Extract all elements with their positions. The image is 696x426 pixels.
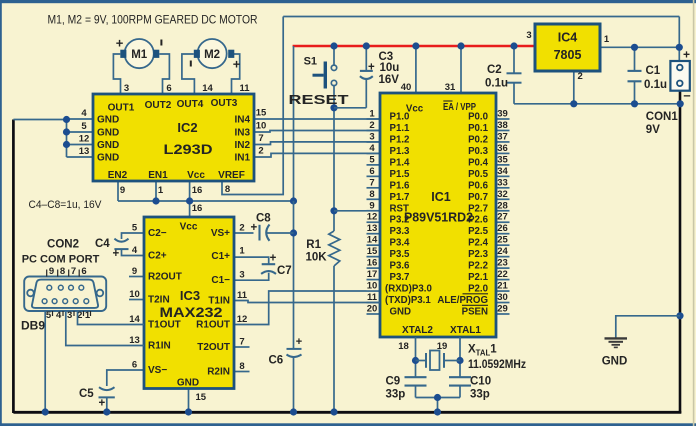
svg-text:9: 9 xyxy=(49,266,54,277)
svg-text:0.1u: 0.1u xyxy=(485,78,508,90)
svg-text:R1OUT: R1OUT xyxy=(196,320,230,331)
svg-text:30: 30 xyxy=(497,292,508,303)
svg-text:MAX232: MAX232 xyxy=(160,305,223,320)
svg-text:R1IN: R1IN xyxy=(148,341,171,352)
svg-text:13: 13 xyxy=(367,223,378,234)
svg-text:Vcc: Vcc xyxy=(180,222,198,233)
svg-text:P0.7: P0.7 xyxy=(468,192,488,203)
svg-text:PSEN: PSEN xyxy=(462,306,488,317)
svg-text:14: 14 xyxy=(202,83,213,94)
svg-text:P2.4: P2.4 xyxy=(468,238,489,249)
svg-text:CON2: CON2 xyxy=(47,239,79,251)
svg-text:C7: C7 xyxy=(277,265,292,277)
svg-text:P1.2: P1.2 xyxy=(390,134,410,145)
svg-text:XTAL1: XTAL1 xyxy=(450,325,481,336)
svg-text:39: 39 xyxy=(497,109,508,120)
svg-text:–: – xyxy=(683,88,690,103)
svg-text:P3.6: P3.6 xyxy=(390,261,411,272)
svg-text:7: 7 xyxy=(239,337,244,348)
svg-text:9V: 9V xyxy=(646,124,660,136)
svg-text:5: 5 xyxy=(132,223,138,234)
svg-text:3: 3 xyxy=(239,270,244,281)
svg-text:22: 22 xyxy=(497,269,508,280)
svg-text:+: + xyxy=(296,336,302,348)
svg-text:P0.4: P0.4 xyxy=(468,157,489,168)
svg-text:2: 2 xyxy=(239,223,244,234)
svg-text:P0.1: P0.1 xyxy=(468,123,489,134)
svg-text:10u: 10u xyxy=(380,62,400,74)
svg-text:Vcc: Vcc xyxy=(406,104,424,115)
svg-text:3: 3 xyxy=(124,83,129,94)
svg-text:12: 12 xyxy=(237,314,248,325)
svg-text:PC COM PORT: PC COM PORT xyxy=(22,254,100,266)
svg-text:T2OUT: T2OUT xyxy=(197,342,230,353)
svg-text:OUT1: OUT1 xyxy=(108,103,135,114)
svg-text:18: 18 xyxy=(398,341,409,352)
svg-text:1: 1 xyxy=(158,185,164,196)
svg-text:C1−: C1− xyxy=(211,275,230,286)
svg-text:16V: 16V xyxy=(379,74,400,86)
svg-text:EN1: EN1 xyxy=(148,170,168,181)
svg-text:28: 28 xyxy=(497,200,508,211)
svg-text:L293D: L293D xyxy=(164,141,213,157)
svg-text:VS−: VS− xyxy=(148,365,167,376)
svg-text:11: 11 xyxy=(239,83,250,94)
svg-text:6: 6 xyxy=(81,266,86,277)
svg-text:GND: GND xyxy=(97,153,119,164)
svg-text:XTAL2: XTAL2 xyxy=(402,325,433,336)
svg-text:0.1u: 0.1u xyxy=(644,79,667,91)
svg-text:17: 17 xyxy=(367,269,378,280)
svg-text:C8: C8 xyxy=(256,213,271,225)
svg-text:15: 15 xyxy=(256,108,267,119)
svg-text:1: 1 xyxy=(369,109,375,120)
svg-text:C5: C5 xyxy=(79,388,94,400)
svg-text:31: 31 xyxy=(445,82,456,93)
svg-text:6: 6 xyxy=(369,166,374,177)
svg-text:25: 25 xyxy=(497,235,508,246)
svg-text:+: + xyxy=(112,248,119,260)
svg-text:VS+: VS+ xyxy=(211,228,230,239)
svg-text:8: 8 xyxy=(239,361,244,372)
svg-text:7: 7 xyxy=(369,177,374,188)
svg-text:13: 13 xyxy=(129,335,140,346)
svg-text:DB9: DB9 xyxy=(21,319,45,333)
svg-text:8: 8 xyxy=(369,189,374,200)
svg-text:P3.7: P3.7 xyxy=(390,272,410,283)
svg-text:2: 2 xyxy=(369,120,374,131)
svg-text:37: 37 xyxy=(497,131,508,142)
svg-text:P1.7: P1.7 xyxy=(390,192,410,203)
svg-text:EN2: EN2 xyxy=(108,170,128,181)
svg-text:C2+: C2+ xyxy=(148,251,167,262)
svg-text:C1: C1 xyxy=(646,65,661,77)
svg-text:P2.1: P2.1 xyxy=(468,272,489,283)
svg-text:23: 23 xyxy=(497,258,508,269)
svg-text:+: + xyxy=(116,36,124,51)
svg-text:IC4: IC4 xyxy=(558,31,578,45)
svg-text:+: + xyxy=(98,398,105,410)
svg-text:R2OUT: R2OUT xyxy=(148,272,182,283)
svg-text:7: 7 xyxy=(258,133,263,144)
svg-text:16: 16 xyxy=(192,203,203,214)
svg-text:M1: M1 xyxy=(131,49,148,61)
svg-text:M1, M2 = 9V, 100RPM GEARED DC: M1, M2 = 9V, 100RPM GEARED DC MOTOR xyxy=(48,15,258,27)
svg-text:IN4: IN4 xyxy=(234,115,250,126)
svg-text:6: 6 xyxy=(132,360,137,371)
svg-text:3: 3 xyxy=(369,131,374,142)
svg-text:10: 10 xyxy=(367,281,378,292)
svg-text:4: 4 xyxy=(132,245,138,256)
svg-text:27: 27 xyxy=(497,212,508,223)
svg-text:OUT3: OUT3 xyxy=(211,98,238,109)
svg-text:5: 5 xyxy=(369,154,375,165)
svg-text:Vcc: Vcc xyxy=(187,170,205,181)
svg-text:P3.5: P3.5 xyxy=(390,249,411,260)
svg-text:9: 9 xyxy=(369,200,374,211)
svg-text:P1.6: P1.6 xyxy=(390,180,411,191)
svg-text:P1.5: P1.5 xyxy=(390,169,411,180)
svg-text:16: 16 xyxy=(367,258,378,269)
svg-text:8: 8 xyxy=(60,266,65,277)
svg-text:2: 2 xyxy=(258,146,263,157)
svg-text:P1.3: P1.3 xyxy=(390,146,411,157)
svg-text:+: + xyxy=(683,48,690,62)
svg-text:VREF: VREF xyxy=(218,170,245,181)
svg-text:26: 26 xyxy=(497,223,508,234)
svg-text:4: 4 xyxy=(369,143,375,154)
svg-text:P2.3: P2.3 xyxy=(468,249,489,260)
svg-text:RESET: RESET xyxy=(289,93,350,107)
svg-text:33p: 33p xyxy=(470,389,490,401)
svg-text:4: 4 xyxy=(56,310,62,321)
svg-text:P1.1: P1.1 xyxy=(390,123,411,134)
svg-text:C2: C2 xyxy=(487,64,502,76)
svg-text:32: 32 xyxy=(497,189,508,200)
svg-text:3: 3 xyxy=(67,310,72,321)
svg-text:14: 14 xyxy=(129,314,140,325)
svg-text:T2IN: T2IN xyxy=(148,295,170,306)
svg-text:GND: GND xyxy=(97,128,119,139)
svg-text:IN2: IN2 xyxy=(234,140,250,151)
svg-text:5: 5 xyxy=(81,121,87,132)
svg-text:C9: C9 xyxy=(386,376,401,388)
svg-text:35: 35 xyxy=(497,154,508,165)
svg-text:P89V51RD2: P89V51RD2 xyxy=(404,210,473,225)
svg-text:P1.4: P1.4 xyxy=(390,157,411,168)
svg-text:IC2: IC2 xyxy=(177,120,197,135)
svg-text:24: 24 xyxy=(497,246,508,257)
svg-text:3: 3 xyxy=(526,30,531,41)
svg-text:11: 11 xyxy=(367,292,378,303)
svg-text:33: 33 xyxy=(497,177,508,188)
svg-text:38: 38 xyxy=(497,120,508,131)
svg-text:10: 10 xyxy=(256,121,267,132)
svg-text:P2.5: P2.5 xyxy=(468,226,489,237)
svg-text:2: 2 xyxy=(578,71,583,82)
svg-text:15: 15 xyxy=(367,246,378,257)
svg-text:C1+: C1+ xyxy=(211,251,230,262)
svg-text:P2.2: P2.2 xyxy=(468,261,488,272)
svg-text:P0.3: P0.3 xyxy=(468,146,489,157)
svg-text:4: 4 xyxy=(81,108,87,119)
svg-text:T1OUT: T1OUT xyxy=(148,320,181,331)
svg-text:IC1: IC1 xyxy=(431,190,451,204)
svg-text:IN3: IN3 xyxy=(234,128,250,139)
svg-text:GND: GND xyxy=(97,140,119,151)
svg-text:IN1: IN1 xyxy=(234,153,250,164)
svg-text:11.0592MHz: 11.0592MHz xyxy=(468,359,526,371)
svg-text:12: 12 xyxy=(79,134,90,145)
svg-text:20: 20 xyxy=(367,303,378,314)
svg-text:M2: M2 xyxy=(204,49,220,61)
svg-text:C4–C8=1u, 16V: C4–C8=1u, 16V xyxy=(29,199,103,211)
svg-text:10K: 10K xyxy=(306,252,328,264)
svg-text:P3.3: P3.3 xyxy=(390,226,411,237)
svg-text:P2.0: P2.0 xyxy=(468,284,488,295)
svg-text:P0.6: P0.6 xyxy=(468,180,489,191)
svg-text:+: + xyxy=(270,253,277,265)
svg-text:ALE/PROG: ALE/PROG xyxy=(437,295,488,306)
svg-text:40: 40 xyxy=(401,82,412,93)
svg-text:EA / VPP: EA / VPP xyxy=(443,102,476,113)
svg-text:C4: C4 xyxy=(95,238,110,250)
svg-text:8: 8 xyxy=(225,184,230,195)
svg-text:21: 21 xyxy=(497,281,508,292)
svg-text:P0.2: P0.2 xyxy=(468,134,488,145)
svg-text:GND: GND xyxy=(177,378,199,389)
svg-text:P0.5: P0.5 xyxy=(468,169,489,180)
svg-text:6: 6 xyxy=(166,83,171,94)
svg-text:33p: 33p xyxy=(386,389,406,401)
svg-text:14: 14 xyxy=(367,235,378,246)
svg-text:9: 9 xyxy=(132,266,137,277)
svg-text:7805: 7805 xyxy=(554,48,582,62)
svg-text:+: + xyxy=(368,61,375,73)
svg-text:34: 34 xyxy=(497,166,508,177)
svg-text:OUT2: OUT2 xyxy=(145,100,172,111)
svg-text:GND: GND xyxy=(97,115,119,126)
svg-text:P3.4: P3.4 xyxy=(390,238,411,249)
svg-text:OUT4: OUT4 xyxy=(177,99,204,110)
svg-text:9: 9 xyxy=(120,185,125,196)
svg-text:16: 16 xyxy=(192,185,203,196)
svg-text:GND: GND xyxy=(390,306,412,317)
svg-text:13: 13 xyxy=(79,146,90,157)
svg-text:P0.0: P0.0 xyxy=(468,112,488,123)
svg-text:29: 29 xyxy=(497,303,508,314)
svg-text:11: 11 xyxy=(237,290,248,301)
svg-text:GND: GND xyxy=(602,356,628,368)
svg-text:R1: R1 xyxy=(306,239,321,251)
svg-text:10: 10 xyxy=(129,289,140,300)
svg-text:1: 1 xyxy=(604,34,610,45)
svg-text:S1: S1 xyxy=(304,56,317,68)
svg-text:(TXD)P3.1: (TXD)P3.1 xyxy=(385,295,431,306)
svg-text:1: 1 xyxy=(239,246,245,257)
svg-text:C10: C10 xyxy=(470,376,491,388)
svg-text:IC3: IC3 xyxy=(180,288,200,303)
svg-text:(RXD)P3.0: (RXD)P3.0 xyxy=(385,284,432,295)
svg-text:36: 36 xyxy=(497,143,508,154)
svg-text:+: + xyxy=(233,57,241,72)
svg-text:12: 12 xyxy=(367,212,378,223)
svg-text:C2−: C2− xyxy=(148,228,167,239)
svg-text:5: 5 xyxy=(46,310,52,321)
svg-text:CON1: CON1 xyxy=(646,111,679,123)
svg-text:15: 15 xyxy=(196,392,207,403)
svg-text:R2IN: R2IN xyxy=(207,367,230,378)
svg-text:C6: C6 xyxy=(269,355,284,367)
svg-text:7: 7 xyxy=(71,266,76,277)
